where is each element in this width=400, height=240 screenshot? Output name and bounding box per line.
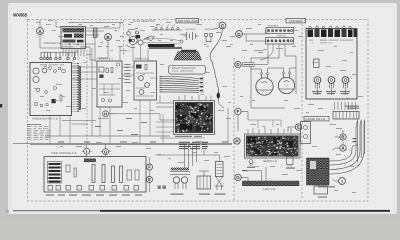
wire bbox=[243, 31, 267, 42]
svg-text:E: E bbox=[297, 125, 300, 130]
transistor Q604 bbox=[36, 88, 39, 91]
wire bbox=[251, 50, 296, 73]
transistor Q203 bbox=[139, 90, 144, 95]
harness left terminals bbox=[160, 76, 163, 92]
section divider (dashed) bbox=[233, 58, 235, 200]
svg-text:AMP SW: AMP SW bbox=[277, 35, 287, 38]
dial cord bbox=[143, 38, 181, 44]
tuner pulley bbox=[180, 40, 183, 43]
wire from coupler to main1 bbox=[86, 47, 109, 60]
wire into cluster bbox=[156, 122, 205, 138]
node E (lower) bbox=[147, 177, 153, 183]
transformer T201 bbox=[248, 137, 256, 143]
svg-text:H: H bbox=[235, 139, 238, 144]
wire bundle right bbox=[358, 120, 365, 163]
svg-text:BOTTOM VIEW: BOTTOM VIEW bbox=[178, 19, 198, 23]
main board 2 outline bbox=[134, 61, 157, 100]
wire bus middle bbox=[62, 114, 213, 124]
chassis outline (dashed) bbox=[28, 20, 369, 202]
svg-text:I: I bbox=[86, 149, 87, 154]
IC IC301 bbox=[186, 103, 196, 107]
potentiometer VR202 bbox=[102, 165, 105, 183]
dial scale (dark) bbox=[148, 44, 175, 47]
filter capacitor C601 bbox=[33, 68, 39, 74]
node H bbox=[234, 138, 240, 144]
slide switch S201 bbox=[49, 163, 61, 183]
svg-text:F: F bbox=[148, 165, 151, 170]
coupler board pins bbox=[63, 49, 84, 57]
transistor Q202 bbox=[145, 83, 150, 88]
potentiometer VR203 bbox=[112, 166, 115, 183]
antenna rod elements bbox=[152, 25, 182, 31]
IF transformer T102 bbox=[199, 106, 207, 112]
edge connector dark pads bbox=[79, 66, 82, 110]
antenna lead wire bbox=[211, 60, 219, 95]
wire bbox=[318, 88, 346, 95]
potentiometer VR201 bbox=[92, 165, 95, 183]
label tuning bbox=[111, 50, 130, 51]
lamp board bbox=[242, 181, 299, 186]
pilot lamp PL902 bbox=[278, 72, 294, 94]
transistor Q603 bbox=[58, 67, 61, 70]
wiring harness fan bbox=[162, 77, 199, 93]
section divider (dashed) bbox=[123, 20, 125, 56]
wire bbox=[254, 51, 268, 65]
wire bbox=[68, 22, 123, 58]
svg-text:TONE CONTROL C.B: TONE CONTROL C.B bbox=[51, 152, 77, 155]
tuning drum dark hub bbox=[136, 35, 141, 38]
section divider (dashed) bbox=[86, 50, 88, 143]
capacitor C110 bbox=[106, 68, 108, 73]
label POWER SW C.B bbox=[304, 116, 329, 121]
wire bbox=[254, 44, 285, 60]
node F (lower) bbox=[147, 164, 153, 170]
IC IC202 bbox=[84, 159, 96, 163]
resistor R110 bbox=[111, 68, 113, 73]
IC IC402 bbox=[284, 141, 293, 147]
wire bbox=[238, 112, 248, 132]
wire labels bbox=[95, 118, 147, 135]
IC IC101 bbox=[99, 67, 104, 72]
resistor R201 bbox=[145, 65, 147, 70]
IC IC303 bbox=[196, 125, 206, 131]
label lamp feed bbox=[243, 63, 255, 67]
wire bbox=[204, 150, 220, 162]
electrolytic C302 bbox=[180, 124, 192, 130]
meter board dense components bbox=[246, 136, 299, 157]
svg-text:WX865: WX865 bbox=[13, 12, 28, 17]
transistor Q302 bbox=[286, 157, 295, 169]
transistor Q606 bbox=[34, 102, 37, 105]
AC input jack bbox=[301, 122, 311, 144]
transistor Q607 bbox=[40, 104, 43, 107]
svg-text:METER C.B: METER C.B bbox=[263, 160, 277, 163]
bottom rule bbox=[13, 209, 103, 212]
pin labels inside board bbox=[34, 64, 64, 66]
svg-text:B: B bbox=[341, 135, 344, 140]
transistor Q201 bbox=[139, 76, 144, 81]
wire bbox=[40, 20, 61, 27]
vertical wire bundle bbox=[185, 145, 197, 169]
label BOTTOM VIEW bbox=[176, 18, 199, 23]
wire drops bbox=[50, 100, 163, 144]
wire bbox=[210, 29, 223, 60]
svg-text:BATTERY: BATTERY bbox=[186, 28, 196, 31]
label TOP VIEW bbox=[286, 18, 306, 23]
tone control board outline bbox=[44, 157, 146, 193]
amplifier chassis outline bbox=[306, 29, 357, 100]
IF transformer T101 bbox=[176, 104, 183, 109]
capacitor C606 bbox=[46, 103, 48, 105]
svg-text:ANTENNA: ANTENNA bbox=[205, 28, 216, 31]
power transistor Q703 bbox=[342, 77, 349, 89]
node G bbox=[235, 174, 241, 180]
wire long verticals bbox=[92, 46, 228, 143]
capacitor bank labels bbox=[309, 39, 354, 41]
wire bbox=[136, 73, 157, 96]
bus tick labels bbox=[58, 142, 228, 143]
transistor Q605 bbox=[45, 91, 48, 94]
dial scale (grey) bbox=[149, 47, 182, 49]
drum cap bbox=[181, 50, 196, 52]
semiconductor parts list bbox=[27, 124, 51, 140]
svg-text:FRAME TRANSISTOR: FRAME TRANSISTOR bbox=[172, 67, 196, 70]
label POWER TRANSISTORS (rounded box) bbox=[169, 66, 206, 75]
terminal strip TB701 bbox=[333, 102, 359, 119]
svg-text:I: I bbox=[341, 179, 342, 184]
dial pointer bracket bbox=[146, 36, 154, 41]
capacitor C605 bbox=[53, 86, 56, 89]
label volume balance bbox=[318, 186, 335, 187]
wire bbox=[219, 99, 225, 109]
junction flag I bbox=[82, 148, 92, 154]
meter board pins bbox=[248, 127, 291, 134]
pot bright detail bbox=[310, 161, 316, 169]
power supply board outline bbox=[30, 63, 72, 116]
transformer T202 bbox=[268, 150, 278, 155]
switch frame bbox=[48, 162, 62, 184]
node B (right) bbox=[335, 130, 346, 140]
electrolytic C301 bbox=[177, 115, 186, 122]
rectifier D601 bbox=[52, 99, 56, 103]
speaker connector bbox=[197, 171, 211, 189]
meter board outline bbox=[245, 134, 301, 158]
capacitor bank C701-C708 bbox=[308, 26, 358, 37]
svg-text:POWER SUPPLY C.B: POWER SUPPLY C.B bbox=[32, 118, 58, 121]
svg-text:SPEAKER: SPEAKER bbox=[268, 24, 279, 27]
svg-text:MAIN C.B-2: MAIN C.B-2 bbox=[135, 58, 149, 61]
connector strip CN301 bbox=[199, 76, 204, 95]
power transistor Q701 bbox=[314, 77, 321, 89]
node F bbox=[235, 108, 241, 114]
IC IC302 bbox=[191, 113, 199, 118]
main board assembly outline bbox=[174, 101, 215, 135]
transistor labels bbox=[312, 91, 350, 94]
battery BT1 bbox=[184, 32, 199, 40]
svg-text:F: F bbox=[237, 109, 240, 114]
label speaker bbox=[199, 194, 210, 195]
wire bbox=[156, 95, 174, 107]
connector pins small bbox=[158, 186, 166, 189]
node D (lamp feed) bbox=[235, 61, 241, 67]
node A bbox=[37, 24, 44, 40]
resistor R601 bbox=[60, 95, 62, 101]
label main board bbox=[175, 136, 202, 137]
svg-text:H: H bbox=[104, 112, 107, 117]
wire above meter bbox=[248, 120, 281, 128]
IC IC201 bbox=[136, 65, 142, 69]
wire bus bbox=[13, 143, 232, 146]
filter capacitor C602 bbox=[33, 76, 39, 82]
transistor Q102 bbox=[108, 99, 111, 102]
capacitor C604 bbox=[62, 69, 66, 73]
transistor Q602 bbox=[54, 70, 57, 73]
svg-text:TOP VIEW: TOP VIEW bbox=[289, 19, 303, 23]
main board 1 outline bbox=[97, 61, 122, 107]
wire bbox=[87, 145, 106, 157]
annotation smudges bbox=[34, 24, 363, 193]
bundle labels bbox=[353, 138, 357, 139]
node D bbox=[236, 31, 243, 38]
svg-text:G: G bbox=[236, 175, 240, 180]
dense label block bbox=[179, 142, 208, 149]
node E bbox=[288, 124, 302, 132]
potentiometer VR204 bbox=[120, 166, 123, 183]
transistor Q301 bbox=[247, 160, 255, 168]
junction flag G bbox=[101, 149, 111, 155]
svg-text:POWER SW C.B: POWER SW C.B bbox=[306, 118, 326, 121]
wire between boxes bbox=[72, 67, 135, 79]
antenna terminal bbox=[204, 33, 212, 41]
svg-text:34: 34 bbox=[6, 210, 10, 214]
wire bbox=[99, 84, 120, 95]
main board pins bbox=[179, 95, 211, 101]
capacitor C201 bbox=[66, 165, 70, 172]
volume/balance pot assembly bbox=[307, 158, 330, 185]
output transistors with heatsink bbox=[170, 168, 190, 190]
label output tr bbox=[171, 194, 184, 195]
edge connector CN601 bbox=[72, 63, 81, 113]
drum hub blob bbox=[129, 39, 132, 42]
meter board noise bbox=[247, 136, 298, 155]
node B bbox=[105, 34, 112, 48]
coupler pin labels bbox=[62, 46, 89, 48]
wire tuner drop bbox=[133, 45, 148, 61]
electrolytic C401 bbox=[273, 137, 280, 144]
wire bbox=[251, 68, 296, 73]
svg-text:E: E bbox=[148, 177, 151, 182]
transistor Q601 bbox=[49, 67, 52, 70]
ferrite bead FB1 bbox=[217, 93, 220, 99]
main board dense components bbox=[175, 102, 213, 133]
label volume bbox=[318, 197, 327, 198]
filter capacitor C603 bbox=[42, 68, 47, 73]
svg-text:TU-RF SELECTOR: TU-RF SELECTOR bbox=[133, 20, 155, 23]
coil L101 bbox=[93, 28, 97, 44]
node C bbox=[219, 22, 226, 29]
tone board labels bbox=[46, 195, 142, 196]
svg-text:LAMP C.B: LAMP C.B bbox=[263, 188, 275, 191]
function switch S901 row B bbox=[266, 38, 294, 45]
node A (right) bbox=[332, 142, 346, 151]
label c-48 bbox=[242, 170, 248, 171]
IC IC401 bbox=[260, 140, 269, 145]
svg-text:G: G bbox=[104, 149, 107, 154]
node I (right) bbox=[332, 178, 345, 185]
antenna jack row J101-J105 bbox=[40, 52, 76, 60]
section divider (dashed) bbox=[301, 20, 303, 200]
node H (upper) bbox=[103, 111, 116, 117]
terminal strip labels bbox=[345, 106, 359, 107]
resistor column R120-R126 bbox=[125, 64, 132, 83]
pot shaft bbox=[314, 186, 328, 194]
wire bus bbox=[45, 135, 170, 137]
electrolytic capacitor C250 bbox=[215, 162, 225, 191]
wire bbox=[149, 157, 151, 192]
capacitor C203 bbox=[135, 170, 139, 180]
IC IC102 bbox=[100, 75, 104, 78]
resistor R201 bbox=[74, 168, 76, 177]
electrolytic C402 bbox=[252, 148, 261, 154]
main board noise bbox=[176, 103, 213, 132]
fuse holder F701 bbox=[314, 59, 320, 68]
left edge tick bbox=[0, 104, 2, 107]
IF transformer T103 bbox=[205, 114, 212, 122]
tuning drum assembly bbox=[126, 29, 149, 48]
annotation smudges top bbox=[36, 20, 303, 55]
coupler board U101 bbox=[61, 27, 86, 49]
svg-text:D: D bbox=[236, 62, 239, 67]
trimmer TC101 bbox=[116, 63, 119, 66]
label capacitor bbox=[215, 194, 226, 195]
harness curves bbox=[329, 121, 365, 175]
power transistor Q702 bbox=[328, 77, 335, 89]
svg-text:COUPLER C.B: COUPLER C.B bbox=[44, 42, 62, 45]
connector row bbox=[48, 186, 139, 191]
pilot lamp PL901 bbox=[256, 73, 273, 96]
capacitor C202 bbox=[127, 170, 132, 180]
transistor Q101 bbox=[101, 98, 104, 101]
wire bbox=[241, 167, 266, 181]
wire horizontal mid bbox=[156, 154, 205, 156]
dial cord drum (hatched) bbox=[174, 52, 202, 61]
wire bbox=[251, 68, 296, 108]
function switch S901 row A bbox=[266, 28, 294, 34]
antenna bus wire bbox=[41, 50, 77, 52]
wire bbox=[40, 40, 61, 48]
